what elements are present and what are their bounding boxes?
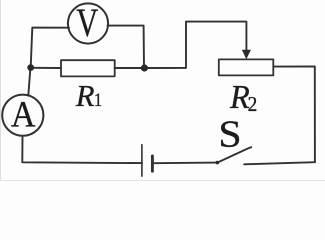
svg-text:V: V: [76, 0, 98, 45]
svg-text:1: 1: [94, 89, 102, 110]
svg-text:2: 2: [248, 93, 258, 116]
svg-text:A: A: [11, 94, 36, 134]
svg-text:R: R: [229, 78, 250, 116]
svg-text:S: S: [218, 112, 241, 155]
svg-text:R: R: [75, 79, 95, 113]
